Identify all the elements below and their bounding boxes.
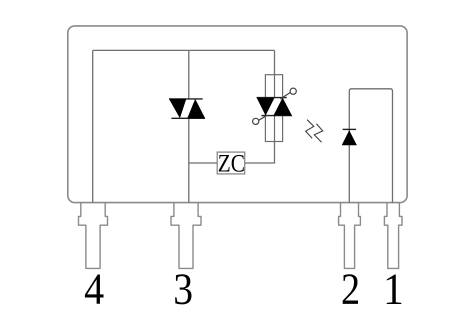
svg-text:2: 2 bbox=[341, 264, 360, 313]
wire: photo-triac internal bottom lead bbox=[274, 116, 276, 142]
wire: ZC to triac branch bbox=[189, 162, 217, 164]
ZC label bbox=[218, 150, 245, 178]
triac Q1 bbox=[169, 99, 205, 118]
svg-text:4: 4 bbox=[84, 266, 104, 314]
wire: triac branch lower segment to pin 3 bbox=[188, 118, 190, 202]
optical coupling arrow 1 bbox=[306, 120, 314, 139]
pin 3 bbox=[171, 203, 201, 269]
wire: photo-triac bottom to ZC bbox=[245, 142, 275, 164]
photo-triac terminal T1 lead bbox=[259, 115, 267, 120]
photo-triac U1 bbox=[257, 98, 292, 116]
pin 4 bbox=[79, 203, 108, 269]
pin 2 bbox=[339, 203, 361, 269]
svg-text:ZC: ZC bbox=[218, 150, 245, 178]
optical coupling arrow 2 bbox=[314, 124, 323, 143]
zero-cross box ZC bbox=[217, 152, 245, 174]
wire: triac branch upper segment bbox=[188, 50, 190, 99]
svg-text:3: 3 bbox=[173, 266, 193, 314]
photo-triac terminal T1 circle bbox=[253, 118, 259, 124]
wire: left vertical from top rail to pin 4 bbox=[92, 50, 94, 202]
pin 1 label bbox=[383, 265, 404, 313]
wire: input loop bbox=[349, 89, 392, 203]
photo-triac U1 envelope bbox=[265, 75, 282, 142]
wire: top rail bbox=[93, 49, 275, 51]
photo-triac terminal T2 lead bbox=[280, 93, 290, 100]
pin 1 bbox=[384, 203, 402, 269]
wire: photo-triac internal top lead bbox=[274, 75, 276, 98]
LED D1 bbox=[342, 129, 357, 145]
wire: photo-triac drop from top rail bbox=[274, 50, 276, 74]
pin 2 label bbox=[341, 264, 360, 313]
svg-text:1: 1 bbox=[383, 265, 404, 313]
SSR body outline bbox=[68, 26, 407, 203]
pin 4 label bbox=[84, 266, 104, 314]
photo-triac terminal T2 circle bbox=[290, 88, 296, 94]
pin 3 label bbox=[173, 266, 193, 314]
